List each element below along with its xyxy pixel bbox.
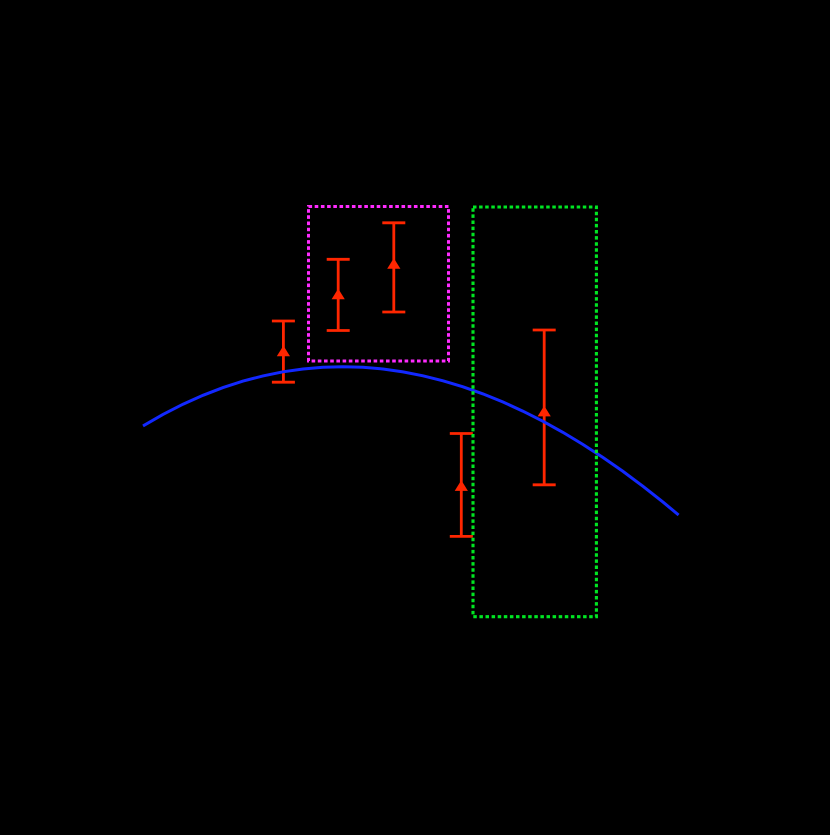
error bar point 1	[272, 321, 295, 382]
error bar point 3	[382, 223, 405, 312]
magenta dotted box	[309, 207, 449, 362]
green dotted box	[473, 207, 596, 617]
error bar point 5	[533, 330, 556, 485]
error bar point 4	[450, 434, 473, 537]
error bar point 2	[327, 259, 350, 330]
blue fitted curve	[143, 367, 679, 515]
